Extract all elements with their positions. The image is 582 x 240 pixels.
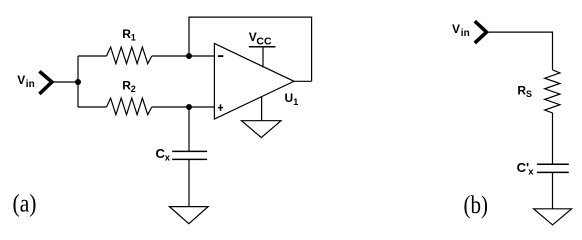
svg-text:U: U	[285, 91, 294, 105]
svg-text:V: V	[452, 22, 460, 36]
capacitor C'x	[537, 164, 569, 172]
svg-text:1: 1	[293, 97, 298, 107]
ground under Cx	[169, 207, 208, 224]
resistor R2	[107, 98, 152, 115]
label R2	[122, 79, 136, 95]
op-amp U1 triangle	[214, 44, 294, 120]
svg-text:1: 1	[131, 33, 136, 43]
label Vcc	[249, 30, 272, 48]
capacitor Cx	[172, 151, 207, 159]
label Rs	[517, 83, 532, 99]
svg-text:V: V	[17, 73, 25, 87]
node junction dot R2/Cx	[186, 104, 192, 110]
label Cx	[156, 146, 171, 164]
wire feedback loop	[189, 17, 312, 81]
node junction dot R1/feedback	[186, 53, 192, 59]
svg-text:x: x	[528, 167, 534, 178]
wire C'x bottom lead	[552, 172, 554, 208]
op-amp inverting input minus	[218, 55, 223, 57]
svg-text:(a): (a)	[13, 190, 37, 217]
label C'x	[517, 160, 535, 178]
resistor R1	[107, 47, 152, 64]
wire Vin to node	[52, 81, 78, 83]
Vin input terminal chevron (a)	[39, 71, 52, 94]
wire op-amp ground stem	[261, 97, 263, 121]
wire R1 right lead	[152, 55, 215, 57]
label U1	[285, 91, 299, 107]
wire R1 left lead	[78, 55, 107, 57]
wire R2 right lead	[152, 106, 215, 108]
Vcc stem into op-amp	[262, 47, 264, 68]
ground under C'x	[534, 209, 572, 225]
svg-text:in: in	[26, 79, 35, 90]
wire Cx bottom lead	[188, 159, 190, 206]
svg-text:x: x	[165, 153, 171, 164]
wire vertical splitter	[77, 56, 79, 107]
label R1	[122, 27, 136, 43]
Vin label (b)	[452, 22, 470, 39]
Vin input terminal chevron (b)	[475, 21, 487, 43]
Vin label (a)	[17, 73, 34, 90]
wire Cx top lead	[188, 107, 190, 151]
Vcc supply bar	[249, 46, 276, 48]
svg-text:in: in	[461, 28, 470, 39]
svg-text:2: 2	[131, 84, 136, 94]
wire op-amp output	[294, 80, 312, 82]
svg-text:S: S	[526, 89, 532, 99]
wire Vin to Rs	[487, 32, 553, 70]
svg-text:CC: CC	[256, 36, 272, 48]
svg-text:(b): (b)	[464, 192, 489, 219]
wire Rs to C'x	[552, 113, 554, 164]
op-amp non-inverting input plus	[218, 104, 223, 111]
resistor Rs	[545, 70, 560, 113]
ground under op-amp	[242, 121, 282, 138]
wire R2 left lead	[78, 106, 107, 108]
node junction dot at Vin split	[75, 79, 81, 85]
